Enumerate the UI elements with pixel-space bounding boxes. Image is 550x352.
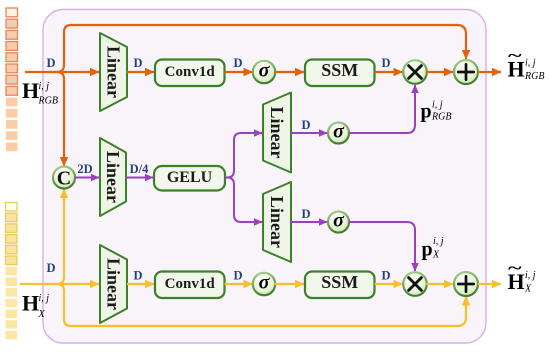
svg-text:i, j: i, j: [39, 81, 50, 92]
wire conv1d to sigma RGB: [225, 71, 253, 73]
svg-text:σ: σ: [259, 272, 271, 294]
svg-text:D: D: [233, 269, 242, 283]
conv1d RGB: [155, 60, 225, 87]
wire SSM to multiply RGB: [375, 71, 403, 73]
wire gate linear to sigma RGB: [291, 132, 327, 134]
label p RGB: [421, 100, 452, 123]
wire add to output RGB: [478, 71, 501, 73]
add node X: [454, 272, 478, 296]
svg-text:~: ~: [508, 45, 522, 65]
svg-text:i, j: i, j: [433, 236, 444, 247]
sigma gate RGB: [328, 121, 349, 144]
svg-text:D: D: [381, 269, 390, 283]
multiply node RGB: [403, 60, 427, 84]
svg-text:σ: σ: [333, 121, 345, 143]
svg-text:i, j: i, j: [525, 270, 536, 281]
svg-text:RGB: RGB: [431, 112, 451, 123]
svg-text:X: X: [524, 284, 532, 295]
label H~ output RGB: [508, 45, 545, 82]
svg-text:RGB: RGB: [38, 96, 58, 107]
svg-text:D: D: [233, 56, 242, 70]
svg-text:D: D: [133, 269, 142, 283]
wire conv1d to sigma X: [225, 283, 253, 285]
wire sigma gate RGB to multiply: [349, 85, 415, 133]
svg-text:i, j: i, j: [39, 293, 50, 304]
svg-text:Linear: Linear: [104, 46, 124, 98]
wire sigma to SSM RGB: [275, 71, 305, 73]
SSM X: [305, 272, 375, 299]
svg-text:p: p: [422, 239, 433, 261]
label p X: [422, 236, 444, 261]
wire multiply to add X: [426, 283, 453, 285]
wire X skip connection bottom: [57, 284, 466, 326]
linear projection X: [100, 245, 127, 323]
wire concat to linear mid: [75, 177, 99, 179]
linear projection mid: [100, 138, 126, 216]
sigma activation X: [253, 272, 275, 296]
label H_X input: [22, 291, 49, 321]
wire RGB skip connection top: [57, 25, 466, 72]
svg-text:H: H: [22, 291, 39, 316]
wire GELU split to upper linear: [225, 133, 262, 178]
svg-text:σ: σ: [333, 210, 345, 232]
svg-text:p: p: [421, 101, 432, 123]
svg-text:Linear: Linear: [104, 258, 124, 310]
label H~ output X: [508, 258, 536, 295]
svg-text:C: C: [57, 167, 71, 189]
wire add to output X: [478, 283, 501, 285]
svg-text:Linear: Linear: [267, 196, 287, 248]
svg-text:D: D: [46, 56, 55, 70]
svg-text:RGB: RGB: [524, 71, 544, 82]
wire linear mid to GELU: [126, 177, 153, 179]
svg-text:SSM: SSM: [321, 60, 358, 80]
svg-text:SSM: SSM: [321, 272, 358, 292]
wire SSM to multiply X: [375, 283, 403, 285]
svg-text:Conv1d: Conv1d: [165, 276, 216, 292]
input feature column X: [6, 203, 18, 340]
svg-text:D: D: [381, 56, 390, 70]
svg-text:Linear: Linear: [267, 107, 287, 159]
module enclosure box: [43, 10, 486, 344]
SSM RGB: [305, 60, 375, 87]
wire RGB branch down to concat: [57, 72, 64, 166]
sigma activation RGB: [253, 60, 275, 84]
svg-text:Linear: Linear: [103, 151, 123, 203]
linear projection gate X: [263, 182, 291, 262]
add node RGB: [454, 60, 478, 84]
svg-text:X: X: [38, 309, 46, 320]
svg-text:i, j: i, j: [525, 58, 536, 69]
svg-text:2D: 2D: [77, 162, 92, 176]
linear projection RGB: [100, 33, 127, 111]
conv1d X: [155, 272, 225, 299]
svg-text:H: H: [22, 78, 39, 103]
svg-text:GELU: GELU: [167, 169, 213, 186]
wire sigma to SSM X: [275, 283, 305, 285]
wire linear to conv1d RGB: [127, 71, 154, 73]
linear projection gate RGB: [263, 93, 291, 173]
concat node C: [53, 167, 75, 190]
label H_RGB input: [22, 78, 58, 107]
wire X branch up to concat: [57, 189, 64, 284]
wire sigma gate X to multiply: [349, 222, 415, 271]
svg-text:D: D: [301, 207, 310, 221]
svg-text:~: ~: [508, 258, 522, 278]
wire gate linear to sigma X: [291, 221, 327, 223]
wire linear to conv1d X: [127, 283, 154, 285]
svg-text:X: X: [432, 250, 440, 261]
multiply node X: [403, 272, 427, 296]
svg-text:D: D: [133, 56, 142, 70]
sigma gate X: [328, 210, 349, 233]
wire GELU split to lower linear: [225, 178, 262, 223]
svg-text:D/4: D/4: [130, 162, 150, 176]
wire X input line: [20, 283, 99, 285]
wire multiply to add RGB: [426, 71, 453, 73]
wire RGB input line: [25, 71, 99, 73]
svg-text:i, j: i, j: [432, 100, 443, 111]
svg-text:Conv1d: Conv1d: [165, 64, 216, 80]
svg-text:D: D: [301, 118, 310, 132]
GELU box: [154, 166, 225, 191]
svg-text:D: D: [46, 261, 55, 275]
input feature column RGB: [6, 8, 18, 151]
svg-text:σ: σ: [259, 60, 271, 82]
